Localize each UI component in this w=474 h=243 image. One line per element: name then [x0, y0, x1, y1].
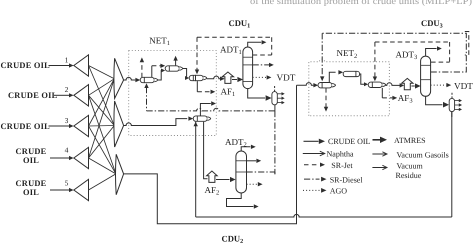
manifold1 bottom wire: [274, 105, 276, 111]
CDU3 dashed feed into E7: [374, 42, 376, 77]
feed splitter triangle S3: [74, 115, 89, 136]
furnace AF3 symbol: [402, 78, 413, 89]
wire splitter 5 to mixer C: [89, 174, 116, 190]
svg-text:3: 3: [65, 116, 69, 125]
legend Vacuum Residue sample: [372, 167, 386, 169]
E4 to AF2 wire: [204, 122, 208, 179]
label CRUDE OIL 5: [15, 179, 46, 197]
residue bus riser right: [451, 111, 453, 217]
tower ADT2: [236, 151, 247, 193]
wire AF2 to ADT2: [216, 179, 230, 181]
feed splitter triangle S4: [74, 147, 89, 168]
E2 top arrow up: [175, 60, 177, 65]
wire splitter 3 to mixer C: [89, 126, 116, 174]
E5 to E6 wire: [329, 72, 331, 82]
arrow up into E4: [194, 122, 198, 127]
ADT2 sidedraw solid arrow: [247, 160, 257, 162]
ADT3 top product arrow: [426, 49, 437, 57]
tower ADT1: [243, 47, 253, 89]
arrow into manifold2: [443, 102, 449, 108]
CDU1 dashed feed into E3: [196, 37, 198, 69]
arrow E1-E2: [161, 69, 165, 73]
feed arrowhead 3: [69, 124, 74, 128]
E1 second stub: [151, 66, 153, 78]
svg-text:1: 1: [65, 55, 69, 64]
arrow into E5: [313, 83, 318, 87]
wire E3 to furnace (hop over box edge): [207, 76, 224, 79]
manifold2 bottom wire: [451, 112, 453, 117]
CDU3 dashed box bottom: [431, 61, 450, 63]
manifold2 top dashed stub: [451, 93, 453, 98]
feed line 1: [49, 65, 70, 67]
svg-text:OIL: OIL: [23, 188, 39, 197]
CDU3 dashed box top: [375, 41, 450, 43]
feed splitter triangle S1: [74, 55, 89, 76]
ADT3 sidedraw dotted VDT: [431, 84, 447, 86]
wire splitter 4 to mixer B: [89, 126, 115, 159]
svg-text:CRUDE: CRUDE: [15, 147, 46, 156]
feed line 3: [49, 125, 70, 127]
svg-text:of the simulation problem of c: of the simulation problem of crude units…: [250, 0, 472, 7]
tower ADT3: [421, 56, 431, 96]
feed splitter triangle S2: [74, 85, 89, 106]
mixer triangle M1 (to CDU1): [114, 58, 124, 98]
legend Vacuum Gasoils sample: [372, 153, 386, 155]
E1 vapor dashed arrow up: [141, 62, 143, 77]
E3 second tick: [195, 75, 197, 81]
ADT3 dash-dot recycle loop: [322, 33, 466, 72]
wire splitter 2 to mixer C: [89, 95, 116, 174]
svg-text:ADT1: ADT1: [220, 44, 242, 56]
ADT2 bottoms arrow: [227, 193, 254, 207]
arrow into E3: [185, 76, 189, 80]
svg-text:VDT: VDT: [277, 72, 296, 82]
CDU1 dashed box top: [197, 36, 272, 38]
arrow into ADT3: [415, 83, 421, 88]
ADT3 bottoms line: [426, 96, 443, 104]
dash-dot bus horizontal: [147, 108, 275, 111]
CDU1 dashed box bottom: [253, 54, 272, 56]
wire furnace to ADT3: [411, 85, 414, 87]
svg-text:OIL: OIL: [23, 156, 39, 165]
exchanger E4: [193, 116, 211, 121]
arrow into furnace AF1: [220, 77, 225, 81]
dashed arrow into E6: [331, 71, 339, 73]
dash-dot bus to E1: [146, 87, 148, 111]
arrow up into E1 bottom: [144, 83, 148, 88]
exchanger E2: [165, 66, 183, 71]
svg-text:CRUDE OIL: CRUDE OIL: [1, 122, 51, 131]
ADT1 bottoms line: [248, 89, 265, 98]
wire E1 to E2: [158, 71, 163, 81]
NET2 dotted box: [309, 59, 390, 116]
ADT1 top product arrow: [248, 42, 262, 47]
wire splitter 3 to mixer A: [89, 79, 115, 126]
exchanger E5: [318, 83, 336, 88]
svg-text:5: 5: [65, 179, 69, 188]
manifold1 top dashed stub: [274, 86, 276, 91]
furnace AF2 symbol: [207, 171, 218, 182]
wire splitter 3 to mixer B: [89, 125, 115, 128]
feed arrowhead 4: [69, 156, 74, 160]
bottom residue bus: [196, 214, 452, 217]
exchanger E7: [368, 82, 386, 87]
E4 top wire and arrow: [200, 104, 210, 116]
CDU1 dashed box right: [271, 37, 273, 55]
arrow into ADT1: [237, 77, 243, 82]
feed line 4: [50, 157, 69, 159]
wire splitter 4 to mixer C: [89, 158, 116, 174]
wire splitter 1 to mixer A: [89, 66, 115, 79]
dash-dot recycle into E5 top: [321, 33, 323, 76]
wire E7 to furnace AF3 (hop): [386, 83, 403, 86]
svg-text:SR-Jet: SR-Jet: [331, 161, 353, 170]
wire furnace to ADT1: [232, 79, 237, 81]
ADT2 top product arrow: [241, 147, 250, 151]
E4 bottom inlet line: [195, 122, 197, 217]
feed line 2: [54, 94, 69, 96]
furnace AF1 symbol: [222, 72, 233, 83]
legend label Vacuum Residue: [396, 162, 424, 180]
wire splitter 1 to mixer B: [89, 66, 115, 126]
legend SR-Jet sample: [304, 164, 320, 166]
mixer triangle M2 (to CDU2): [114, 101, 124, 147]
wire M1 to E1 (hop over box edge): [124, 77, 136, 80]
ADT2 sidedraw dash-dot: [247, 171, 275, 173]
E3 bottom stub: [196, 81, 198, 92]
label CRUDE OIL 4: [15, 147, 46, 165]
wire splitter 2 to mixer B: [89, 95, 115, 125]
svg-text:ADT3: ADT3: [396, 49, 418, 61]
wire splitter 2 to mixer A: [89, 79, 115, 96]
wire E2 to E3: [183, 69, 187, 79]
ADT1 sidedraw dotted VDT: [253, 76, 267, 78]
svg-text:ATMRES: ATMRES: [394, 136, 426, 145]
svg-text:Residue: Residue: [396, 171, 422, 180]
arrow into ADT2: [230, 177, 236, 182]
legend SR-Diesel sample: [304, 178, 320, 180]
manifold collector 2: [449, 98, 462, 111]
ADT1 sidedraw dash-dot: [253, 64, 270, 66]
arrow into E4: [188, 116, 193, 120]
legend Naphtha sample: [303, 153, 324, 155]
feed arrowhead 5: [69, 188, 74, 192]
svg-text:SR-Diesel: SR-Diesel: [330, 175, 364, 184]
svg-text:2: 2: [65, 85, 69, 94]
mixer triangle M3 (to CDU3): [116, 154, 124, 194]
svg-text:CRUDE OIL: CRUDE OIL: [328, 137, 371, 146]
feed splitter triangle S5: [74, 179, 89, 200]
arrow into manifold1: [266, 95, 272, 101]
AF3 dashed arrow: [382, 97, 392, 99]
feed arrowhead 1: [69, 63, 74, 67]
exchanger E3: [189, 75, 207, 80]
arrow into E7: [364, 82, 368, 86]
legend AGO sample: [303, 189, 321, 191]
wire M2 to E4 (hop over box edge): [124, 119, 188, 126]
svg-text:CRUDE: CRUDE: [15, 179, 46, 188]
wire splitter 4 to mixer A: [89, 79, 115, 158]
exchanger E1: [140, 77, 158, 82]
E5 bottom dashed arrow down: [325, 88, 327, 107]
AF1 dashed arrow: [197, 91, 210, 93]
legend CRUDE OIL sample: [304, 140, 319, 142]
svg-text:Vacuum Gasoils: Vacuum Gasoils: [397, 151, 449, 160]
arrow into furnace AF3: [400, 83, 405, 87]
svg-text:CDU1: CDU1: [229, 18, 251, 30]
svg-text:CDU3: CDU3: [421, 18, 443, 30]
arrow into E1: [135, 78, 140, 82]
CDU3 dashed box right: [449, 42, 451, 62]
svg-text:4: 4: [65, 146, 69, 155]
legend ATMRES sample: [373, 139, 381, 141]
svg-text:Vacuum: Vacuum: [397, 162, 424, 171]
dash-dot riser from ADT2 draw: [274, 111, 276, 174]
svg-text:CRUDE OIL: CRUDE OIL: [1, 61, 51, 70]
E6 to E7 wire: [360, 74, 364, 84]
ADT2 sidedraw dotted: [247, 183, 259, 185]
E7 bottom stub: [381, 88, 383, 98]
exchanger E6: [343, 71, 359, 76]
feed line 5: [50, 189, 69, 191]
dashed arrow into E2: [152, 65, 161, 67]
svg-text:VDT: VDT: [454, 81, 473, 91]
svg-text:AGO: AGO: [330, 187, 348, 196]
svg-text:Naphtha: Naphtha: [327, 150, 355, 159]
feed arrowhead 2: [69, 93, 74, 97]
manifold collector 1: [272, 92, 285, 105]
svg-text:CRUDE OIL: CRUDE OIL: [8, 91, 58, 100]
wire M3 feed to CDU3 (down/right/up): [124, 85, 297, 224]
feed into E5 (hop over box edge): [297, 83, 314, 86]
dashed bracket right edge: [465, 32, 469, 56]
NET1 dotted box: [129, 51, 217, 136]
svg-text:CDU2: CDU2: [222, 233, 244, 243]
